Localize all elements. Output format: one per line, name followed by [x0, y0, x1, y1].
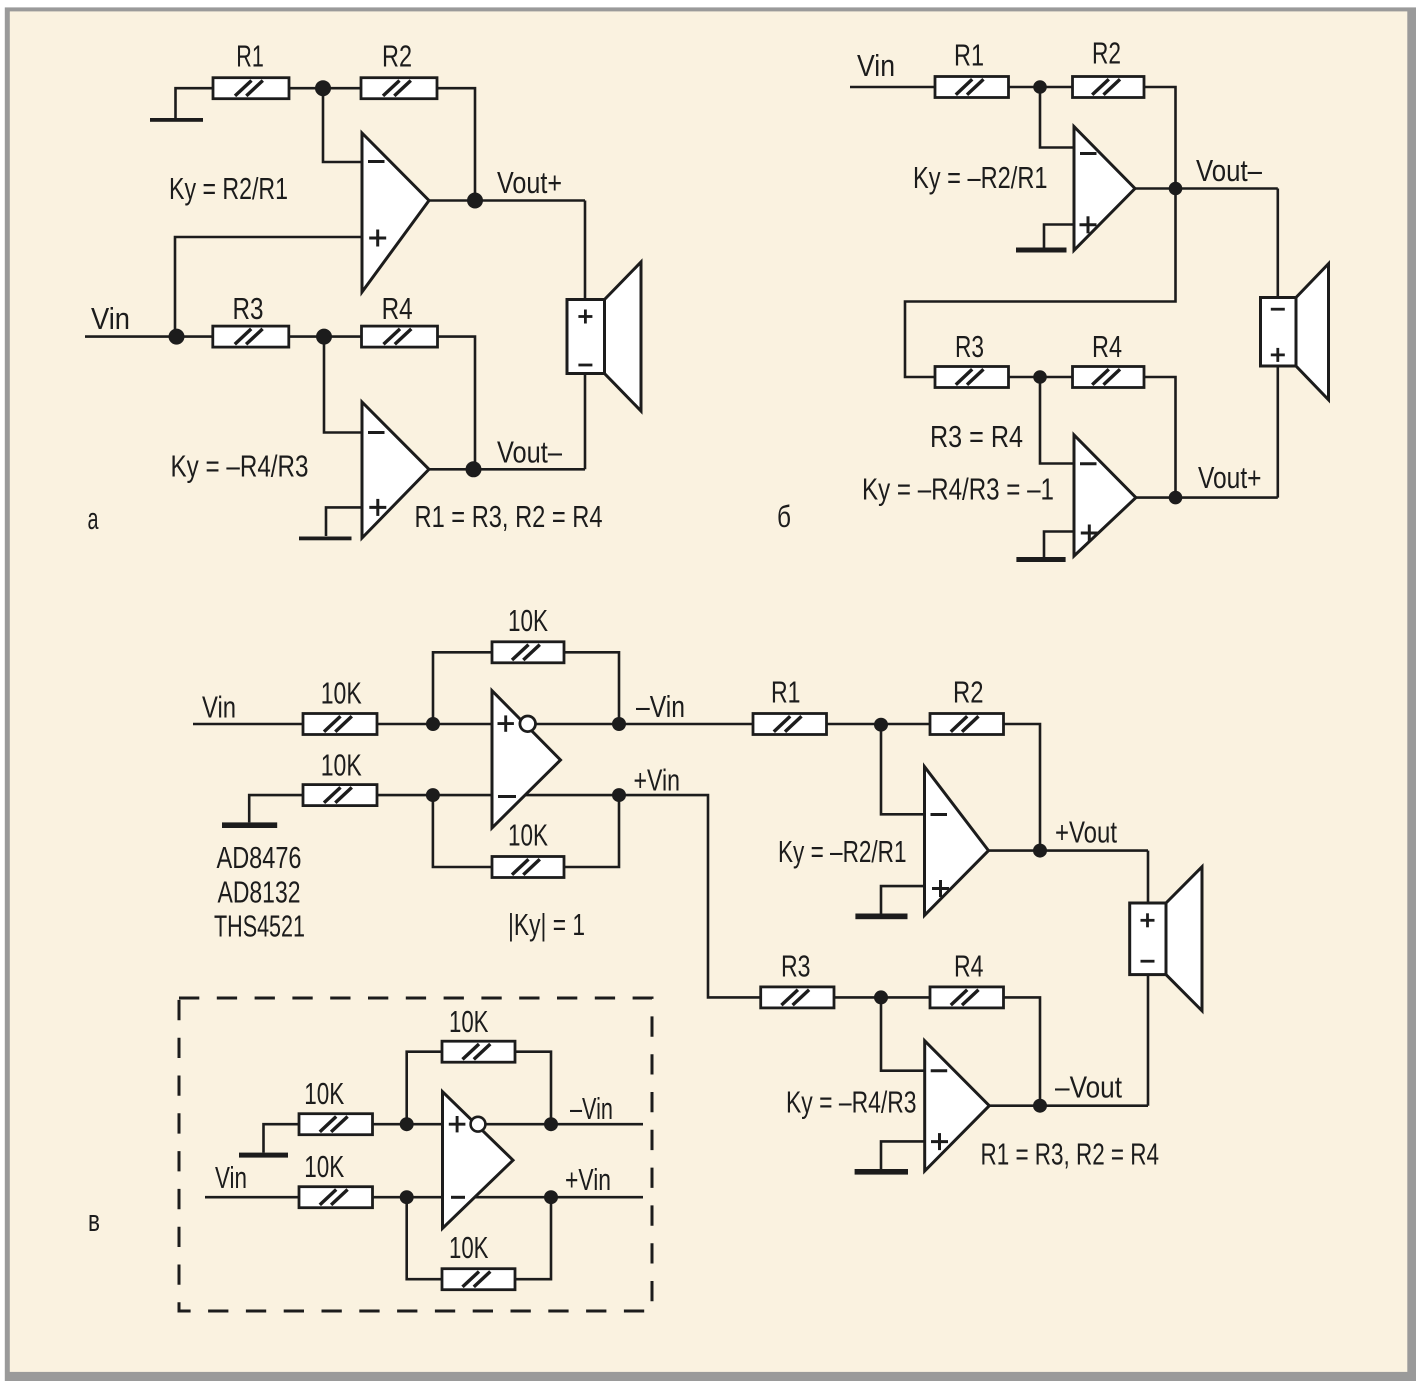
- resistor R2 (a): [361, 78, 437, 99]
- svg-text:Vin: Vin: [857, 48, 895, 83]
- node -Vin (inset): [544, 1117, 558, 1131]
- node Vout+ (b): [1169, 491, 1183, 505]
- svg-text:R3 = R4: R3 = R4: [930, 419, 1023, 454]
- ground op2 (a): [299, 537, 352, 541]
- resistor R2 (b): [1073, 77, 1145, 98]
- wire R1-R2 segment (b): [1009, 86, 1073, 89]
- svg-text:10K: 10K: [449, 1004, 489, 1039]
- label 10K feedback top (inset): [449, 1004, 489, 1039]
- ground input1 (inset): [239, 1153, 288, 1158]
- node input2 junction (v): [426, 788, 440, 802]
- wire R1-R2 node segment (a): [289, 87, 361, 90]
- svg-text:–Vout: –Vout: [1055, 1070, 1122, 1105]
- svg-text:AD8476: AD8476: [217, 840, 302, 875]
- resistor 10K input1 (inset): [299, 1114, 373, 1135]
- label R4 (a): [382, 291, 413, 326]
- label Vin (v): [202, 690, 236, 725]
- wire non-inverting to ground (v op1): [881, 886, 925, 913]
- wire +Vin output (v): [525, 794, 619, 797]
- node R1/R2 junction (v): [874, 718, 888, 732]
- label 10K input1 (v): [321, 675, 362, 710]
- svg-text:Ky = –R4/R3: Ky = –R4/R3: [786, 1085, 917, 1120]
- label THS4521 (v): [214, 909, 305, 944]
- wire input1 to diffamp (inset): [373, 1123, 443, 1126]
- resistor R1 (v): [753, 714, 827, 735]
- svg-text:Vin: Vin: [202, 690, 236, 725]
- wire +Vin long route to R3 (v): [619, 795, 761, 997]
- wire R2 to +Vout node (v): [1004, 724, 1041, 851]
- svg-text:10K: 10K: [508, 603, 548, 638]
- svg-text:R4: R4: [954, 949, 984, 984]
- label R1 = R3, R2 = R4 (v): [981, 1137, 1160, 1172]
- label 10K feedback bottom (inset): [449, 1230, 489, 1265]
- svg-text:Ky = –R2/R1: Ky = –R2/R1: [778, 834, 907, 869]
- label Vout+ (a): [497, 165, 562, 200]
- svg-text:Vout–: Vout–: [1196, 153, 1263, 188]
- svg-text:+Vin: +Vin: [565, 1162, 611, 1197]
- label Ky = -R4/R3 (v): [786, 1085, 917, 1120]
- wire output Vout+ (b): [1136, 496, 1278, 499]
- resistor R1 (a): [213, 78, 289, 99]
- resistor R4 (b): [1073, 367, 1145, 388]
- resistor 10K input2 (v): [303, 785, 377, 806]
- wire R3-R4 segment (b): [1009, 376, 1073, 379]
- node R3/R4 junction (b): [1033, 370, 1047, 384]
- svg-text:Vin: Vin: [91, 301, 130, 336]
- ground input2 (v): [222, 822, 277, 828]
- svg-text:10K: 10K: [449, 1230, 489, 1265]
- ground top-left (a): [150, 118, 203, 122]
- label R3 = R4 (b): [930, 419, 1023, 454]
- wire R2 to Vout- node (b): [1144, 87, 1176, 189]
- node -Vin (v): [612, 717, 626, 731]
- wire Vin lead (b): [850, 86, 935, 89]
- resistor 10K feedback top (v): [492, 642, 564, 663]
- node input1 junction (inset): [400, 1117, 414, 1131]
- label +Vin (v): [634, 763, 681, 798]
- label Vout- (a): [497, 435, 563, 470]
- node +Vin (inset): [544, 1190, 558, 1204]
- svg-text:в: в: [88, 1203, 100, 1238]
- svg-text:Ky = –R4/R3: Ky = –R4/R3: [171, 449, 309, 484]
- label AD8132 (v): [218, 875, 301, 910]
- wire R2 to Vout+ node (a): [437, 88, 475, 200]
- diff-amp U1 AD8476 (v): [492, 691, 561, 828]
- wire input2 to diffamp (v): [377, 794, 492, 797]
- svg-text:R1: R1: [771, 675, 801, 710]
- svg-text:+Vin: +Vin: [634, 763, 681, 798]
- label R1 (a): [236, 39, 263, 74]
- node R1/R2 junction (a): [315, 80, 331, 96]
- wire output Vout- (a): [429, 468, 585, 471]
- wire R3-R4 segment (v): [834, 996, 930, 999]
- wire R3-R4 segment (a): [289, 335, 362, 338]
- wire feedback top loop (inset): [407, 1052, 442, 1125]
- wire feedback bottom right (inset): [515, 1197, 551, 1279]
- speaker LS1 (a): [567, 262, 641, 411]
- resistor 10K feedback bottom (inset): [442, 1269, 515, 1290]
- diff-amp U1 (inset): [443, 1092, 514, 1229]
- svg-text:R1 = R3, R2 = R4: R1 = R3, R2 = R4: [415, 499, 603, 534]
- wire inverting input (b op2): [1040, 377, 1074, 464]
- wire output Vout+ (a): [429, 199, 585, 202]
- resistor R2 (v): [930, 714, 1004, 735]
- wire Vin lead (inset): [205, 1196, 299, 1199]
- label 10K input2 (v): [321, 747, 362, 782]
- label 10K input2 (inset): [304, 1149, 344, 1184]
- wire feedback top right (inset): [515, 1052, 551, 1125]
- resistor 10K feedback top (inset): [442, 1041, 515, 1062]
- svg-text:10K: 10K: [508, 818, 548, 853]
- svg-text:+Vout: +Vout: [1055, 815, 1117, 850]
- svg-text:Ky = –R4/R3 = –1: Ky = –R4/R3 = –1: [862, 472, 1054, 507]
- svg-text:R4: R4: [382, 291, 413, 326]
- svg-text:AD8132: AD8132: [218, 875, 301, 910]
- wire ground lead input2 (v): [249, 795, 303, 822]
- wire output Vout- (b): [1135, 187, 1278, 190]
- svg-text:10K: 10K: [304, 1149, 344, 1184]
- label b (subfigure): [777, 499, 791, 534]
- svg-text:THS4521: THS4521: [214, 909, 305, 944]
- label Ky = -R2/R1 (b): [913, 160, 1048, 195]
- wire feedback top loop (v): [433, 652, 492, 724]
- wire feedback top right (v): [564, 652, 619, 724]
- svg-text:Vin: Vin: [215, 1160, 247, 1195]
- label -Vin (inset): [570, 1091, 613, 1126]
- resistor R1 (b): [935, 77, 1009, 98]
- ground op2 (b): [1016, 557, 1065, 562]
- node Vin junction (a): [169, 329, 185, 345]
- wire R1-R2 segment (v): [827, 723, 931, 726]
- svg-text:10K: 10K: [321, 747, 362, 782]
- wire feedback loop down-left (b): [905, 189, 1176, 378]
- svg-text:Vout–: Vout–: [497, 435, 563, 470]
- label Vin (b): [857, 48, 895, 83]
- wire R4 to -Vout node (v): [1004, 997, 1041, 1105]
- ground op2 (v): [855, 1169, 908, 1175]
- resistor 10K input1 (v): [303, 714, 377, 735]
- label Vin (inset): [215, 1160, 247, 1195]
- wire -Vin output (v): [535, 723, 753, 726]
- label Ky = -R2/R1 (v): [778, 834, 907, 869]
- wire Vin lead (a): [85, 335, 213, 338]
- svg-text:R4: R4: [1092, 329, 1122, 364]
- wire Vin lead (v): [193, 723, 303, 726]
- op-amp U1 (a): [362, 133, 429, 292]
- wire inverting input (v op1): [881, 725, 925, 815]
- label -Vin (v): [636, 689, 685, 724]
- resistor 10K input2 (inset): [299, 1187, 373, 1208]
- label Ky = -R4/R3 = -1 (b): [862, 472, 1054, 507]
- node Vout- (b): [1169, 182, 1183, 196]
- wire non-inverting input from Vin (a): [175, 237, 362, 337]
- speaker LS1 (v): [1130, 867, 1202, 1011]
- node R3/R4 junction (v): [874, 990, 888, 1004]
- node +Vout (v): [1033, 844, 1047, 858]
- label +Vout (v): [1055, 815, 1117, 850]
- wire non-inverting to ground (b op2): [1044, 532, 1074, 558]
- label Vout- (b): [1196, 153, 1263, 188]
- resistor 10K feedback bottom (v): [492, 857, 564, 878]
- svg-text:R3: R3: [233, 291, 264, 326]
- label Ky = -R4/R3 (a): [171, 449, 309, 484]
- wire input1 to diffamp (v): [377, 723, 492, 726]
- ground op1 (v): [855, 914, 907, 920]
- svg-text:10K: 10K: [304, 1076, 344, 1111]
- wire Vout- to speaker (b): [1277, 189, 1280, 298]
- wire -Vin output (inset): [485, 1123, 643, 1126]
- wire -Vout to speaker (v): [1147, 975, 1150, 1106]
- label R1 = R3, R2 = R4 (a): [415, 499, 603, 534]
- svg-text:б: б: [777, 499, 791, 534]
- svg-text:10K: 10K: [321, 675, 362, 710]
- label R3 (v): [781, 949, 811, 984]
- label |Ky| = 1 (v): [508, 907, 585, 942]
- resistor R4 (v): [930, 987, 1004, 1008]
- wire +Vin output (inset): [475, 1196, 643, 1199]
- wire R4 to Vout- node (a): [438, 337, 476, 470]
- node Vout+ (a): [467, 193, 483, 209]
- label AD8476 (v): [217, 840, 302, 875]
- op-amp U2 (v): [925, 767, 989, 916]
- wire output -Vout (v): [989, 1104, 1148, 1107]
- speaker LS1 (b): [1261, 264, 1329, 400]
- dashed box (inset): [179, 998, 652, 1311]
- wire ground lead input1 (inset): [264, 1124, 300, 1152]
- wire feedback bottom loop (inset): [407, 1197, 442, 1279]
- inversion bubble (inset): [471, 1117, 486, 1132]
- svg-text:R1: R1: [954, 38, 984, 73]
- node +Vin (v): [612, 788, 626, 802]
- wire Vout- to speaker (a): [584, 374, 587, 470]
- label 10K feedback bottom (v): [508, 818, 548, 853]
- op-amp U2 (a): [362, 402, 429, 538]
- svg-text:R2: R2: [953, 675, 984, 710]
- wire inverting input (a op1): [323, 88, 362, 162]
- svg-text:R2: R2: [382, 39, 412, 74]
- wire ground stub to R1 (a): [176, 88, 214, 118]
- label Vin (a): [91, 301, 130, 336]
- label 10K input1 (inset): [304, 1076, 344, 1111]
- svg-text:Vout+: Vout+: [1198, 460, 1262, 495]
- svg-text:|Ky| = 1: |Ky| = 1: [508, 907, 585, 942]
- svg-text:Vout+: Vout+: [497, 165, 562, 200]
- label R4 (v): [954, 949, 984, 984]
- label 10K feedback top (v): [508, 603, 548, 638]
- svg-text:R1 = R3, R2 = R4: R1 = R3, R2 = R4: [981, 1137, 1160, 1172]
- wire output +Vout (v): [989, 849, 1149, 852]
- label -Vout (v): [1055, 1070, 1122, 1105]
- wire non-inverting to ground (a op2): [326, 507, 362, 536]
- svg-text:R1: R1: [236, 39, 263, 74]
- svg-text:–Vin: –Vin: [570, 1091, 613, 1126]
- node R1/R2 junction (b): [1033, 80, 1047, 94]
- wire non-inverting to ground (v op2): [881, 1141, 925, 1169]
- svg-text:Ky = R2/R1: Ky = R2/R1: [169, 171, 288, 206]
- label Ky = R2/R1 (a): [169, 171, 288, 206]
- svg-text:R3: R3: [955, 329, 984, 364]
- svg-text:R2: R2: [1092, 36, 1121, 71]
- resistor R4 (a): [362, 326, 438, 347]
- resistor R3 (a): [213, 326, 289, 347]
- label R4 (b): [1092, 329, 1122, 364]
- wire inverting input (v op2): [881, 997, 925, 1070]
- node R3/R4 junction (a): [316, 329, 332, 345]
- label R2 (b): [1092, 36, 1121, 71]
- node input2 junction (inset): [400, 1190, 414, 1204]
- wire feedback bottom loop (v): [433, 795, 492, 867]
- label R1 (v): [771, 675, 801, 710]
- wire Vout+ to speaker (a): [584, 201, 587, 300]
- wire R4 to Vout+ node (b): [1144, 377, 1176, 498]
- wire Vout+ to speaker (b): [1277, 366, 1280, 498]
- resistor R3 (b): [935, 367, 1009, 388]
- label R2 (v): [953, 675, 984, 710]
- op-amp U1 (b): [1074, 127, 1135, 251]
- label v (subfigure): [88, 1203, 100, 1238]
- svg-text:а: а: [88, 501, 99, 536]
- wire inverting input (b op1): [1040, 87, 1074, 148]
- label R3 (a): [233, 291, 264, 326]
- label +Vin (inset): [565, 1162, 611, 1197]
- node -Vout (v): [1033, 1099, 1047, 1113]
- ground op1 (b): [1016, 248, 1067, 253]
- wire feedback bottom right (v): [564, 795, 619, 867]
- node input1 junction (v): [426, 717, 440, 731]
- inversion bubble (v): [520, 716, 536, 732]
- op-amp U2 (b): [1074, 435, 1136, 556]
- label R1 (b): [954, 38, 984, 73]
- label a (subfigure): [88, 501, 99, 536]
- wire inverting input (a op2): [324, 337, 362, 433]
- wire +Vout to speaker (v): [1147, 851, 1150, 903]
- resistor R3 (v): [761, 987, 834, 1008]
- label Vout+ (b): [1198, 460, 1262, 495]
- svg-text:R3: R3: [781, 949, 811, 984]
- label R3 (b): [955, 329, 984, 364]
- svg-text:–Vin: –Vin: [636, 689, 685, 724]
- label R2 (a): [382, 39, 412, 74]
- svg-text:Ky = –R2/R1: Ky = –R2/R1: [913, 160, 1048, 195]
- wire input2 to diffamp (inset): [373, 1196, 443, 1199]
- node Vout- (a): [466, 461, 482, 477]
- op-amp U3 (v): [925, 1041, 990, 1171]
- wire non-inverting to ground (b op1): [1044, 225, 1074, 248]
